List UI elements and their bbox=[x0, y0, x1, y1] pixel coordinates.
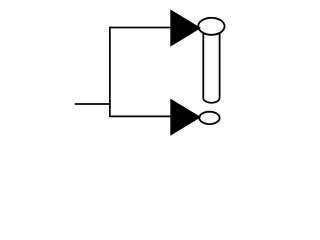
transducer bottom terminal (ellipse) bbox=[199, 112, 219, 124]
buffer A1 (top driver triangle) bbox=[170, 9, 201, 46]
transducer top terminal (ellipse) bbox=[198, 18, 224, 35]
wire: input lead bbox=[75, 103, 111, 105]
wire: vertical branch with top and bottom runs to both buffers bbox=[110, 28, 171, 117]
transducer body (cylinder) bbox=[203, 26, 219, 103]
buffer A2 (bottom driver triangle) bbox=[170, 99, 201, 136]
